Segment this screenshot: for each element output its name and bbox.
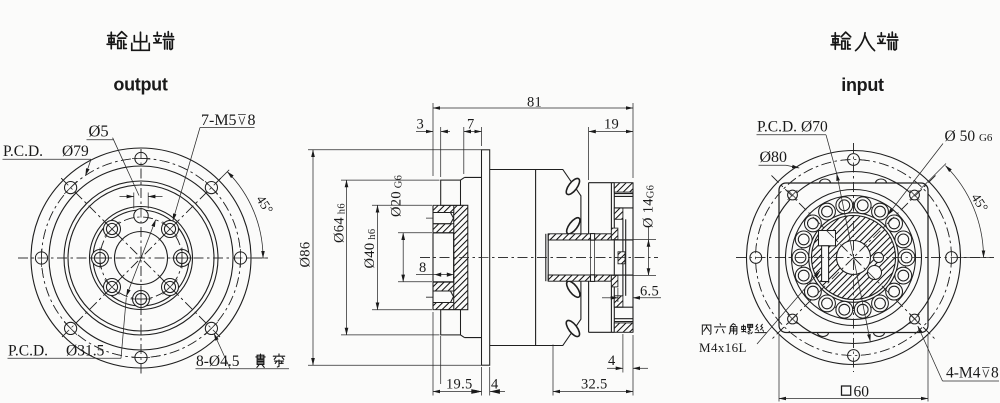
svg-text:60: 60 xyxy=(854,384,870,401)
svg-text:32.5: 32.5 xyxy=(581,377,608,393)
svg-text:19: 19 xyxy=(604,117,619,133)
svg-text:Ø5: Ø5 xyxy=(89,122,109,141)
svg-text:M4x16L: M4x16L xyxy=(699,340,747,355)
svg-text:P.C.D.: P.C.D. xyxy=(757,119,797,136)
svg-text:7-M5: 7-M5 xyxy=(201,112,237,129)
svg-text:Ø80: Ø80 xyxy=(760,149,788,166)
svg-text:8-Ø4.5: 8-Ø4.5 xyxy=(196,353,240,370)
svg-text:output: output xyxy=(113,75,167,95)
svg-text:Ø79: Ø79 xyxy=(62,143,89,160)
svg-text:4: 4 xyxy=(491,377,499,393)
svg-text:19.5: 19.5 xyxy=(446,377,473,393)
svg-text:7: 7 xyxy=(467,117,475,133)
svg-text:P.C.D.: P.C.D. xyxy=(8,343,48,360)
svg-text:P.C.D.: P.C.D. xyxy=(3,143,43,160)
svg-text:Ø86: Ø86 xyxy=(298,242,314,268)
svg-text:input: input xyxy=(841,75,884,95)
svg-text:4-M4: 4-M4 xyxy=(946,365,981,382)
svg-text:81: 81 xyxy=(527,95,542,111)
svg-text:6.5: 6.5 xyxy=(640,284,659,300)
svg-text:8: 8 xyxy=(419,260,427,276)
svg-text:8: 8 xyxy=(248,112,256,129)
svg-text:3: 3 xyxy=(417,117,425,133)
svg-text:Ø31.5: Ø31.5 xyxy=(66,343,105,360)
svg-text:8: 8 xyxy=(991,365,999,382)
svg-text:Ø70: Ø70 xyxy=(801,119,828,136)
svg-text:4: 4 xyxy=(608,353,616,369)
